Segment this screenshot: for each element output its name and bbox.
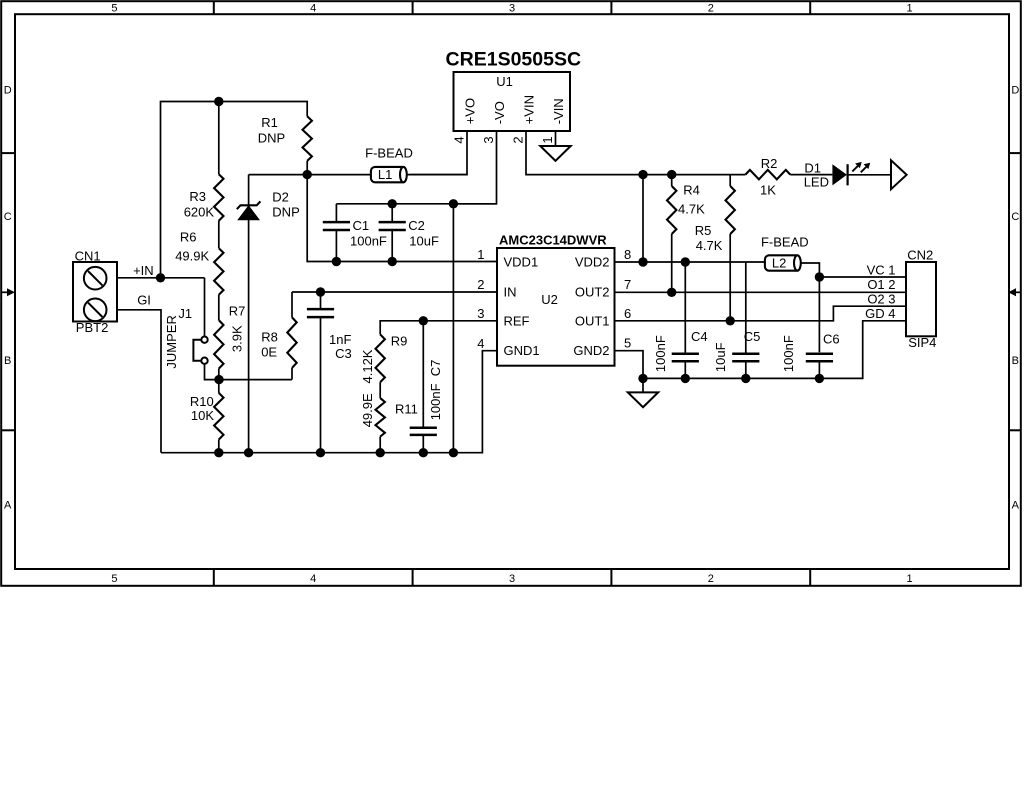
wire J1 top lead <box>204 278 206 337</box>
svg-text:J1: J1 <box>178 306 192 321</box>
svg-text:GD 4: GD 4 <box>865 306 895 321</box>
svg-text:OUT1: OUT1 <box>575 314 610 329</box>
U1 pin 1 wire <box>555 131 557 146</box>
wire OUT2 line <box>615 291 907 293</box>
svg-text:5: 5 <box>624 336 631 351</box>
wire U2 pin5 <box>615 351 644 393</box>
wire R11 bottom lead <box>379 437 381 453</box>
svg-text:5: 5 <box>111 2 117 14</box>
wire VDD1 drop <box>307 175 497 262</box>
wire bottom rail <box>161 351 497 453</box>
node IN C3 <box>316 287 325 296</box>
svg-text:2: 2 <box>477 277 484 292</box>
U1 pin 2 wire <box>526 131 745 175</box>
wire R8 top lead <box>291 292 293 317</box>
node VC branch <box>815 272 824 281</box>
U1 pin 3 wire <box>453 131 496 204</box>
svg-text:VDD1: VDD1 <box>504 255 539 270</box>
node GND2 C6 <box>815 374 824 383</box>
port arrow <box>891 160 907 189</box>
capacitor C3 <box>307 308 334 311</box>
node bottom rail C7 <box>419 448 428 457</box>
wire R7 bottom lead <box>218 369 220 380</box>
svg-text:DNP: DNP <box>272 205 299 220</box>
svg-text:GND1: GND1 <box>504 343 540 358</box>
svg-text:4.7K: 4.7K <box>696 238 723 253</box>
node -VO drop <box>449 199 458 208</box>
connector CN1 box <box>73 262 117 322</box>
inductor L1 <box>371 167 404 182</box>
svg-text:SIP4: SIP4 <box>908 335 936 350</box>
node GND2 pin5 <box>638 374 647 383</box>
resistor R7 <box>214 320 223 369</box>
svg-text:3: 3 <box>509 573 515 585</box>
svg-text:A: A <box>4 500 12 512</box>
wire R10 bottom lead <box>218 440 220 453</box>
wire C7 leads <box>422 321 424 428</box>
wire R6-R7 <box>218 295 220 320</box>
resistor R11 <box>376 398 385 437</box>
svg-text:10K: 10K <box>191 408 214 423</box>
wire top rail <box>161 102 308 278</box>
svg-text:CN1: CN1 <box>75 248 101 263</box>
wire OUT1 line <box>615 306 907 321</box>
wire R2-D1 <box>790 174 832 176</box>
svg-text:100nF: 100nF <box>350 233 387 248</box>
resistor R2 <box>745 170 790 179</box>
svg-text:8: 8 <box>624 247 631 262</box>
svg-text:1: 1 <box>477 247 484 262</box>
CN1 screw pin 2 <box>84 299 107 322</box>
svg-text:D: D <box>4 85 12 97</box>
svg-text:R3: R3 <box>189 189 206 204</box>
node top rail R3 <box>214 97 223 106</box>
svg-text:R8: R8 <box>261 330 278 345</box>
svg-text:3.9K: 3.9K <box>230 325 245 352</box>
svg-text:10uF: 10uF <box>409 233 439 248</box>
node R4 top <box>667 170 676 179</box>
capacitor C6 <box>806 353 833 356</box>
node bottom rail R11 <box>376 448 385 457</box>
svg-text:100nF: 100nF <box>781 335 796 372</box>
wire L2 right <box>801 263 820 352</box>
svg-text:6: 6 <box>624 306 631 321</box>
wire D1-port <box>848 174 891 176</box>
svg-text:JUMPER: JUMPER <box>164 315 179 368</box>
svg-text:L1: L1 <box>378 167 392 182</box>
svg-text:1: 1 <box>907 2 913 14</box>
svg-text:C4: C4 <box>691 329 708 344</box>
border zone ticks <box>213 1 215 14</box>
node L1 junction <box>303 170 312 179</box>
svg-text:D2: D2 <box>272 190 289 205</box>
svg-text:4: 4 <box>310 2 316 14</box>
wire VDD2 line <box>615 261 765 263</box>
resistor R1 <box>303 116 312 161</box>
node -VO C2 <box>388 199 397 208</box>
svg-text:F-BEAD: F-BEAD <box>365 146 413 161</box>
wire C1 leads <box>335 204 337 222</box>
node R5 OUT1 <box>726 316 735 325</box>
svg-text:100nF C7: 100nF C7 <box>428 360 443 421</box>
border inner frame <box>15 14 1009 569</box>
wire D2 top lead <box>248 175 250 206</box>
svg-text:B: B <box>1012 355 1019 367</box>
node bottom rail C3 <box>316 448 325 457</box>
wire R1 bottom lead <box>306 161 308 175</box>
svg-text:L2: L2 <box>772 256 786 271</box>
capacitor C2 <box>379 221 406 224</box>
svg-text:D: D <box>1011 85 1019 97</box>
connector CN2 box <box>906 262 936 336</box>
svg-text:REF: REF <box>504 314 530 329</box>
svg-text:LED: LED <box>804 175 829 190</box>
svg-text:2: 2 <box>708 2 714 14</box>
svg-text:CN2: CN2 <box>907 247 933 262</box>
resistor R9 <box>376 334 385 382</box>
svg-text:C: C <box>4 211 12 223</box>
resistor R4 <box>667 186 676 234</box>
svg-text:1: 1 <box>540 136 555 143</box>
svg-text:+VO: +VO <box>463 98 478 124</box>
ground under U1 pin1 <box>540 146 570 161</box>
resistor R10 <box>214 393 223 440</box>
svg-text:C3: C3 <box>335 346 352 361</box>
svg-text:-VIN: -VIN <box>551 98 566 124</box>
wire R3 top lead <box>218 102 220 175</box>
resistor R3 <box>214 174 223 221</box>
svg-text:R1: R1 <box>261 115 278 130</box>
node R7 J1 R8 R10 <box>214 375 223 384</box>
wire -VO drop <box>452 204 454 453</box>
svg-text:F-BEAD: F-BEAD <box>761 235 809 250</box>
svg-text:2: 2 <box>511 136 526 143</box>
svg-text:1nF: 1nF <box>329 332 351 347</box>
resistor R6 <box>214 248 223 295</box>
svg-text:100nF: 100nF <box>653 335 668 372</box>
resistor R8 <box>287 317 296 368</box>
node C2 bottom <box>388 257 397 266</box>
U1 pin 4 wire <box>410 131 467 175</box>
capacitor C5 <box>732 353 759 356</box>
svg-text:DNP: DNP <box>258 131 285 146</box>
node feed bottom <box>638 257 647 266</box>
svg-text:CRE1S0505SC: CRE1S0505SC <box>446 49 582 71</box>
svg-text:C5: C5 <box>744 329 761 344</box>
svg-text:4: 4 <box>310 573 316 585</box>
wire VC line <box>819 276 906 278</box>
wire GI <box>117 310 161 453</box>
LED D1 <box>832 164 847 185</box>
svg-text:R10: R10 <box>190 394 214 409</box>
wire C5 leads <box>745 262 747 354</box>
svg-text:4.7K: 4.7K <box>678 201 705 216</box>
node feed top <box>638 170 647 179</box>
svg-text:C6: C6 <box>823 332 840 347</box>
svg-text:1K: 1K <box>760 182 776 197</box>
svg-text:10uF: 10uF <box>713 342 728 372</box>
svg-text:OUT2: OUT2 <box>575 284 610 299</box>
jumper J1 <box>201 337 207 343</box>
svg-text:GI: GI <box>137 292 151 307</box>
svg-text:A: A <box>1012 500 1020 512</box>
svg-text:R11: R11 <box>395 402 418 417</box>
IC U2 isolated comparator box <box>497 248 615 366</box>
svg-text:3: 3 <box>477 306 484 321</box>
svg-text:4: 4 <box>477 336 484 351</box>
svg-text:49.9E: 49.9E <box>360 393 375 427</box>
wire R8 bottom lead <box>291 368 293 380</box>
wire R3-R6 <box>218 221 220 249</box>
inductor L2 <box>765 255 798 270</box>
svg-text:1: 1 <box>907 573 913 585</box>
IC U1 DC-DC converter box <box>454 72 571 131</box>
svg-text:4: 4 <box>452 136 467 143</box>
svg-text:O1 2: O1 2 <box>867 277 895 292</box>
svg-text:3: 3 <box>481 136 496 143</box>
border arrow right <box>1016 291 1021 293</box>
wire C4 leads <box>684 262 686 354</box>
wire C3 leads <box>320 292 322 309</box>
svg-text:R6: R6 <box>180 229 197 244</box>
wire C2 leads <box>391 204 393 222</box>
ground GND2 <box>628 392 658 407</box>
svg-text:R5: R5 <box>695 223 712 238</box>
svg-text:U2: U2 <box>541 292 558 307</box>
wire IN line <box>292 291 497 293</box>
capacitor C7 <box>410 427 437 430</box>
capacitor C1 <box>323 221 350 224</box>
svg-text:+IN: +IN <box>133 263 154 278</box>
node C1 bottom <box>332 257 341 266</box>
wire J1 bottom lead <box>205 364 293 380</box>
wire R5 leads <box>729 175 731 186</box>
wire L1 right <box>407 174 467 176</box>
border arrow left <box>1 291 7 293</box>
svg-text:IN: IN <box>504 284 517 299</box>
node bottom rail R10 <box>214 448 223 457</box>
node bottom rail VO <box>449 448 458 457</box>
svg-text:7: 7 <box>624 277 631 292</box>
svg-text:D1: D1 <box>804 161 821 176</box>
diode D2 zener <box>238 206 259 220</box>
svg-text:B: B <box>4 355 11 367</box>
wire GND2 rail <box>643 321 906 379</box>
border outer frame <box>1 1 1021 586</box>
svg-text:2: 2 <box>708 573 714 585</box>
svg-text:AMC23C14DWVR: AMC23C14DWVR <box>499 232 607 247</box>
svg-text:0E: 0E <box>261 345 277 360</box>
svg-text:U1: U1 <box>496 74 513 89</box>
node C4 top <box>681 257 690 266</box>
wire R9-R11 <box>379 382 381 398</box>
node GND2 C4 <box>681 374 690 383</box>
svg-text:R2: R2 <box>761 156 778 171</box>
svg-text:VC 1: VC 1 <box>867 263 896 278</box>
svg-text:PBT2: PBT2 <box>76 320 109 335</box>
node R4 OUT2 <box>667 288 676 297</box>
wire D2 bottom lead <box>248 220 250 453</box>
svg-text:R7: R7 <box>229 304 246 319</box>
wire R10 top lead <box>218 380 220 393</box>
svg-text:GND2: GND2 <box>573 343 609 358</box>
svg-text:5: 5 <box>111 573 117 585</box>
node +IN junction <box>156 273 165 282</box>
wire VDD2 feed <box>642 175 644 262</box>
node bottom rail D2 <box>244 448 253 457</box>
node REF C7 <box>419 316 428 325</box>
svg-text:R4: R4 <box>683 182 700 197</box>
svg-text:+VIN: +VIN <box>522 95 537 124</box>
svg-text:VDD2: VDD2 <box>575 255 610 270</box>
node GND2 C5 <box>741 374 750 383</box>
capacitor C4 <box>672 353 699 356</box>
svg-text:3: 3 <box>509 2 515 14</box>
svg-text:-VO: -VO <box>492 101 507 124</box>
svg-text:O2 3: O2 3 <box>867 291 895 306</box>
svg-text:C2: C2 <box>408 218 425 233</box>
wire main +VO line <box>249 174 371 176</box>
svg-text:C: C <box>1011 211 1019 223</box>
svg-text:49.9K: 49.9K <box>175 248 209 263</box>
wire C6 bottom lead <box>818 361 820 378</box>
CN1 screw pin 1 <box>84 267 107 290</box>
wire -VO rail <box>336 203 496 205</box>
resistor R5 <box>726 186 735 234</box>
wire +IN <box>117 277 205 279</box>
svg-text:620K: 620K <box>184 204 215 219</box>
svg-text:R9: R9 <box>391 333 408 348</box>
wire R4 leads <box>671 175 673 186</box>
wire REF line <box>380 321 497 335</box>
svg-text:C1: C1 <box>353 218 370 233</box>
svg-text:4.12K: 4.12K <box>360 349 375 383</box>
